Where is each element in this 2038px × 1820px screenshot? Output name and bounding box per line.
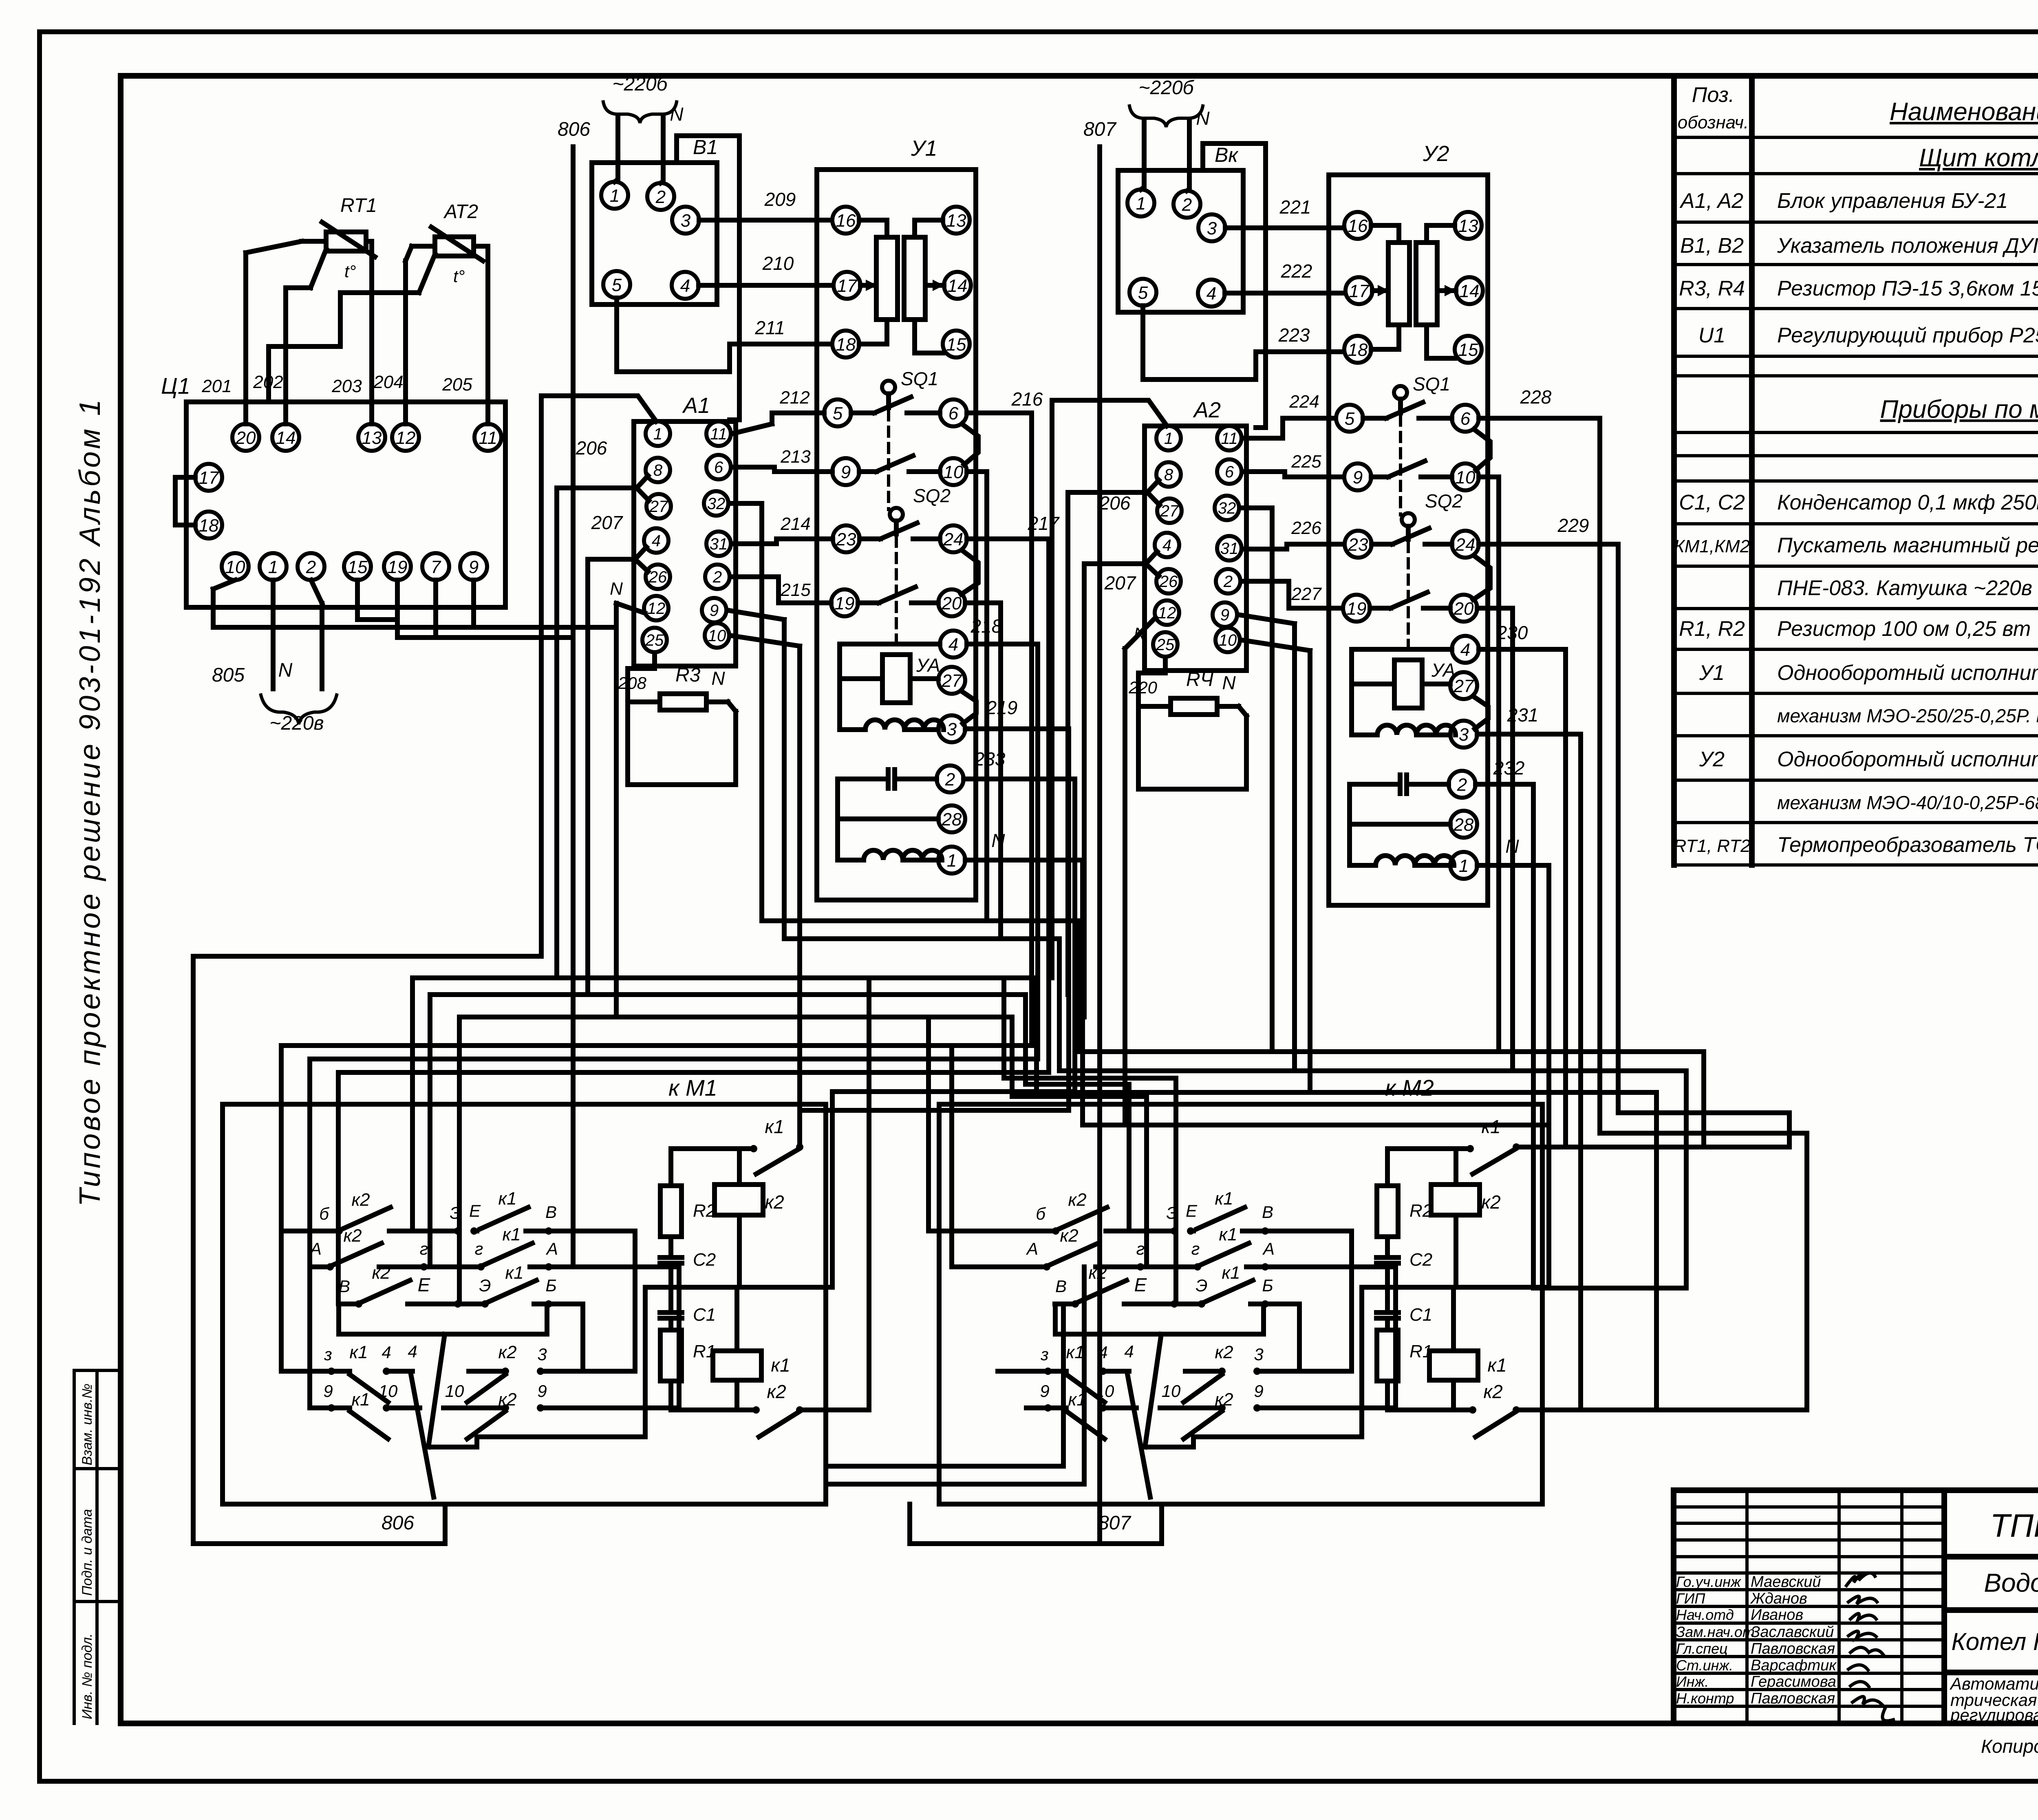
terminal 17	[1345, 277, 1372, 304]
terminal 2	[705, 565, 730, 589]
svg-text:31: 31	[1220, 540, 1239, 558]
svg-text:17: 17	[1349, 281, 1370, 301]
svg-text:RЧ: RЧ	[1186, 669, 1214, 690]
svg-text:У1: У1	[1699, 661, 1725, 685]
svg-text:Е: Е	[469, 1201, 481, 1220]
terminal 1	[1127, 190, 1154, 216]
terminal 25	[1153, 632, 1178, 657]
terminal 10	[1215, 628, 1240, 652]
svg-text:28: 28	[942, 810, 962, 829]
svg-text:Наименование: Наименование	[1890, 98, 2038, 126]
svg-text:4: 4	[382, 1343, 391, 1362]
svg-text:~220б: ~220б	[612, 73, 668, 95]
svg-text:к1: к1	[1066, 1342, 1084, 1362]
svg-text:228: 228	[1520, 386, 1552, 408]
wire 17-18 link	[175, 477, 195, 525]
svg-text:8: 8	[653, 461, 663, 479]
svg-text:211: 211	[754, 317, 785, 338]
terminal 32	[1215, 496, 1239, 520]
terminal 1	[938, 847, 965, 874]
wire SQ2b out drop	[965, 603, 1001, 939]
terminal 2	[1449, 771, 1476, 798]
svg-text:5: 5	[833, 404, 843, 424]
svg-text:N: N	[1505, 836, 1519, 857]
node E box	[339, 1304, 547, 1334]
svg-text:к2: к2	[1088, 1263, 1107, 1283]
wire KM2 row2 left extension	[952, 1046, 1032, 1267]
terminal 5	[824, 399, 851, 426]
terminal 17	[834, 272, 860, 299]
svg-text:2: 2	[945, 770, 955, 790]
position indicator B2	[1118, 170, 1243, 312]
svg-text:3: 3	[681, 211, 691, 231]
actuator unit Y1	[817, 170, 976, 900]
wire supply drops 2	[1141, 121, 1189, 191]
svg-text:11: 11	[1221, 430, 1238, 448]
svg-text:C1, C2: C1, C2	[1679, 491, 1745, 514]
wire A1.25 to R3	[628, 653, 736, 785]
terminal 9	[460, 553, 487, 580]
capacitor C2	[1376, 1257, 1398, 1263]
svg-text:24: 24	[943, 529, 964, 549]
wire column C1	[1079, 921, 1704, 1147]
contact row4 K2	[1184, 1371, 1352, 1402]
svg-text:У2: У2	[1423, 141, 1449, 166]
wire 214	[732, 539, 833, 544]
svg-text:27: 27	[1454, 676, 1474, 696]
svg-text:9: 9	[1353, 468, 1363, 488]
svg-text:Е: Е	[1134, 1274, 1147, 1295]
svg-text:215: 215	[780, 580, 811, 600]
svg-text:Пускатель магнитный реверсив: Пускатель магнитный реверсивный	[1777, 534, 2038, 557]
contact row5 K2	[1160, 1408, 1396, 1439]
svg-text:220: 220	[1128, 678, 1158, 697]
svg-text:А: А	[309, 1239, 322, 1258]
wire bus 2399	[412, 978, 1037, 1231]
svg-text:к1: к1	[1222, 1263, 1240, 1283]
svg-text:23: 23	[1348, 535, 1368, 555]
svg-text:1: 1	[947, 851, 957, 871]
svg-text:Э: Э	[479, 1276, 491, 1295]
regulator unit U1 (Ц1)	[186, 402, 505, 607]
svg-text:223: 223	[1278, 324, 1310, 346]
control unit A1	[634, 421, 736, 666]
svg-text:5: 5	[1138, 283, 1148, 303]
svg-text:3: 3	[947, 719, 957, 739]
svg-text:Павловская: Павловская	[1751, 1690, 1835, 1707]
wire A2.32 drop	[1240, 508, 1272, 1052]
wire 224	[1243, 418, 1336, 438]
terminal 11	[706, 421, 731, 446]
wire B2 right loop	[1203, 143, 1266, 428]
terminal 14	[944, 272, 971, 299]
contact row2 K1	[1140, 1243, 1396, 1408]
wire RT1 leads	[246, 241, 326, 424]
svg-text:к1: к1	[505, 1263, 523, 1283]
svg-text:механизм МЭО-40/10-0,25Р-68. к: механизм МЭО-40/10-0,25Р-68. катушка~220…	[1777, 792, 2038, 813]
svg-text:Е: Е	[1186, 1201, 1198, 1220]
wire column C2	[1059, 939, 1686, 1288]
svg-text:226: 226	[1291, 518, 1321, 538]
svg-text:~220в: ~220в	[269, 713, 324, 734]
contact row4 K1	[281, 1371, 412, 1402]
svg-text:9: 9	[469, 557, 479, 577]
svg-text:Конденсатор 0,1 мкф 250в: Конденсатор 0,1 мкф 250в	[1777, 491, 2038, 514]
svg-text:2: 2	[1223, 573, 1233, 591]
svg-text:к1: к1	[1219, 1224, 1237, 1244]
wire inter-KM ties	[826, 1267, 1084, 1484]
wire B1.4 to U1.17 (210)	[699, 283, 834, 288]
wire 216	[967, 413, 1032, 1046]
terminal 31	[1217, 536, 1242, 560]
svg-text:31: 31	[710, 535, 728, 553]
svg-text:Копировал: ФЛ: Копировал: ФЛ	[1981, 1736, 2038, 1757]
wire 228	[1479, 418, 1807, 1410]
contact row1 K1	[1191, 1207, 1352, 1371]
svg-text:15: 15	[1458, 340, 1478, 360]
terminal 1	[646, 421, 670, 446]
wire 27-3 link	[961, 691, 976, 724]
svg-text:206: 206	[576, 437, 607, 459]
svg-text:к1: к1	[771, 1355, 790, 1376]
svg-text:Нач.отд: Нач.отд	[1676, 1606, 1734, 1623]
wire k1R up KM1	[797, 921, 802, 1147]
contact row5 K1	[310, 1408, 420, 1439]
svg-text:13: 13	[1458, 216, 1478, 236]
wire bus 2565	[281, 1046, 1032, 1371]
svg-text:Ст.инж.: Ст.инж.	[1676, 1657, 1733, 1674]
wire B2.3 to U2.16 (221)	[1225, 225, 1344, 230]
relay coil k2	[715, 1185, 763, 1215]
terminal 2	[937, 766, 964, 792]
terminal 23	[833, 525, 860, 552]
wire k2R KM2	[1549, 1407, 1656, 1412]
resistor pot2b	[1416, 243, 1437, 325]
svg-text:Котел КВ-ГМ-20: Котел КВ-ГМ-20	[1951, 1628, 2038, 1655]
svg-text:к2: к2	[498, 1342, 516, 1362]
svg-text:10: 10	[1162, 1381, 1181, 1401]
svg-text:к2: к2	[1215, 1342, 1233, 1362]
parts list table	[1674, 77, 2038, 865]
svg-text:12: 12	[647, 600, 666, 618]
svg-text:t°: t°	[453, 267, 465, 286]
svg-text:4: 4	[1098, 1343, 1107, 1362]
terminal 23	[1345, 531, 1372, 558]
resistor R2	[1377, 1186, 1398, 1237]
svg-text:обознач.: обознач.	[1678, 113, 1749, 132]
svg-text:15: 15	[946, 335, 966, 355]
svg-text:4: 4	[652, 532, 661, 550]
svg-text:4: 4	[408, 1342, 417, 1361]
terminal 14	[1456, 277, 1483, 304]
terminal 3	[1198, 214, 1225, 241]
terminal 3	[938, 715, 965, 742]
svg-text:N: N	[278, 660, 293, 681]
contact row5 K1	[1026, 1408, 1136, 1439]
svg-text:12: 12	[1158, 604, 1176, 622]
svg-text:Типовое проектное решение: Типовое проектное решение 903-01-192 Аль…	[74, 397, 106, 1207]
wire B1.3 to U1.16 (209)	[699, 218, 832, 223]
svg-text:В: В	[339, 1277, 350, 1296]
wire bus 2631	[338, 1072, 1049, 1304]
wire A1.32 drop	[730, 503, 800, 921]
svg-text:к2: к2	[1068, 1190, 1086, 1210]
terminal 20	[232, 424, 259, 451]
svg-text:Иванов: Иванов	[1751, 1606, 1803, 1624]
svg-text:Гл.спец: Гл.спец	[1676, 1640, 1728, 1657]
svg-text:7: 7	[431, 557, 441, 577]
svg-text:217: 217	[1028, 513, 1060, 534]
svg-text:24: 24	[1455, 535, 1476, 555]
svg-text:Термопреобразователь ТСП-5071: Термопреобразователь ТСП-5071	[1777, 833, 2038, 857]
contact row4 K2	[467, 1371, 635, 1402]
svg-text:RT1, RT2: RT1, RT2	[1673, 836, 1750, 856]
svg-text:6: 6	[714, 459, 723, 477]
resistor pot1	[876, 237, 898, 320]
svg-text:28: 28	[1454, 815, 1474, 835]
svg-text:Блок управления БУ-21: Блок управления БУ-21	[1777, 189, 2008, 213]
svg-text:Варсафтик: Варсафтик	[1751, 1657, 1837, 1674]
svg-text:6: 6	[1460, 409, 1471, 429]
svg-text:233: 233	[974, 748, 1006, 770]
terminal 14	[272, 424, 299, 451]
wire 228 tie	[1656, 1407, 1807, 1412]
svg-text:Инж.: Инж.	[1676, 1673, 1709, 1690]
svg-text:18: 18	[199, 516, 219, 536]
wire mid bus	[477, 1287, 832, 1437]
svg-text:17: 17	[837, 276, 858, 296]
svg-text:203: 203	[331, 376, 362, 396]
left margin stamp boxes	[74, 1370, 121, 1723]
svg-text:N: N	[991, 830, 1005, 851]
svg-text:В: В	[1262, 1202, 1273, 1222]
wire 219	[965, 729, 1069, 1110]
terminal 4	[1452, 636, 1479, 663]
resistor R1	[1385, 1318, 1390, 1410]
actuator unit Y2	[1329, 175, 1488, 905]
svg-text:20: 20	[236, 428, 256, 448]
terminal 18	[832, 331, 859, 357]
terminal 6	[1452, 405, 1479, 432]
svg-text:3: 3	[1459, 725, 1469, 745]
svg-text:6: 6	[1225, 463, 1234, 481]
resistor R1	[668, 1318, 673, 1410]
resistor pot2	[904, 237, 925, 320]
svg-text:3: 3	[537, 1345, 547, 1364]
svg-text:Подп. и дата: Подп. и дата	[79, 1509, 95, 1596]
svg-text:221: 221	[1279, 196, 1311, 218]
svg-text:А: А	[545, 1239, 558, 1258]
relay coil k2	[1431, 1185, 1480, 1215]
svg-text:806: 806	[558, 119, 590, 140]
wire N drop	[965, 860, 1083, 1125]
contact row4 K1	[998, 1371, 1129, 1402]
svg-text:19: 19	[1347, 599, 1367, 619]
wire 230	[1479, 649, 1566, 1147]
contact SQ1a2	[1363, 402, 1452, 418]
wire slant2	[1127, 1374, 1150, 1497]
terminal 10	[940, 458, 967, 485]
wire RT2 leads	[406, 246, 435, 424]
svg-text:В1: В1	[693, 136, 718, 159]
terminal 20	[1450, 595, 1477, 622]
terminal 16	[1344, 212, 1371, 239]
svg-text:Б: Б	[1262, 1276, 1273, 1295]
svg-text:807: 807	[1083, 119, 1117, 140]
svg-text:Резистор 100 ом 0,25 вт: Резистор 100 ом 0,25 вт	[1777, 617, 2031, 641]
wire R4 to N	[1217, 706, 1246, 716]
wire 206	[557, 476, 649, 978]
svg-text:1: 1	[1136, 194, 1146, 214]
svg-text:к2: к2	[1215, 1390, 1233, 1410]
wire column C5	[1012, 1017, 1147, 1267]
terminal 19	[1343, 595, 1370, 622]
svg-text:218: 218	[970, 615, 1002, 637]
svg-text:225: 225	[1291, 452, 1321, 472]
svg-text:к1: к1	[1215, 1189, 1233, 1209]
svg-text:16: 16	[1348, 216, 1368, 236]
contact SQ2b2	[1370, 592, 1450, 608]
wire B1 right loop	[677, 136, 739, 420]
terminal 27	[646, 494, 671, 518]
contact row3 K2	[1055, 1280, 1174, 1304]
svg-text:14: 14	[1460, 281, 1480, 301]
svg-text:Зам.нач.от: Зам.нач.от	[1676, 1624, 1755, 1640]
wire A2.1 feed	[1052, 400, 1167, 978]
svg-text:Водогрейные котлы типа КВ-Г: Водогрейные котлы типа КВ-ГМ	[1984, 1568, 2038, 1597]
svg-text:ТПР 903-01-192 АГСиАНС: ТПР 903-01-192 АГСиАНС	[1990, 1507, 2038, 1544]
terminal 4	[1155, 533, 1179, 557]
wire A1.10 drop	[730, 635, 800, 921]
svg-text:4: 4	[1124, 1342, 1134, 1361]
wire bus 2724	[800, 1110, 1069, 1147]
svg-text:224: 224	[1289, 392, 1319, 412]
svg-text:8: 8	[1164, 466, 1173, 484]
wire matrix bottom	[428, 1437, 477, 1447]
svg-text:207: 207	[1104, 572, 1136, 593]
svg-text:5: 5	[1345, 409, 1355, 429]
terminal 2	[298, 553, 324, 580]
svg-text:Маевский: Маевский	[1751, 1573, 1821, 1591]
wire bus 2495	[459, 1017, 1012, 1304]
wire 807 drop	[1097, 147, 1102, 1544]
svg-text:г: г	[1136, 1239, 1145, 1258]
svg-text:25: 25	[1156, 636, 1175, 654]
wire bus 2678	[832, 1092, 1075, 1287]
wire 212	[732, 413, 824, 434]
contact SQ2b	[858, 587, 938, 603]
wire slant1	[1145, 1334, 1161, 1447]
svg-text:208: 208	[618, 673, 647, 693]
terminal 17	[195, 464, 222, 491]
terminal 18	[195, 512, 222, 538]
terminal 25	[642, 628, 667, 652]
contact SQ2a2	[1372, 528, 1452, 544]
svg-text:14: 14	[948, 276, 968, 296]
svg-text:к1: к1	[498, 1189, 516, 1209]
svg-text:2: 2	[712, 568, 722, 586]
node E box	[1055, 1304, 1264, 1334]
terminal 10	[705, 623, 729, 648]
svg-text:27: 27	[942, 671, 962, 691]
wire column C3	[1037, 978, 1656, 1410]
svg-text:4: 4	[1206, 284, 1216, 304]
svg-text:12: 12	[396, 428, 416, 448]
wire pot linkage	[866, 280, 877, 291]
terminal 5	[1336, 405, 1363, 432]
resistor pot1b	[1388, 243, 1409, 325]
wire matrix bottom	[1145, 1437, 1193, 1447]
terminal 1	[601, 182, 628, 209]
terminal 4	[1198, 280, 1225, 307]
svg-text:N: N	[1196, 108, 1210, 129]
terminal 28	[938, 805, 965, 832]
svg-text:20: 20	[942, 593, 962, 613]
svg-text:SQ2: SQ2	[1425, 490, 1462, 512]
svg-text:15: 15	[348, 557, 368, 577]
terminal 24	[1452, 531, 1479, 558]
terminal 9	[832, 458, 859, 485]
terminal 15	[344, 553, 371, 580]
wire 227	[1242, 581, 1343, 608]
inductor L1b	[1377, 725, 1456, 735]
svg-text:N: N	[610, 579, 623, 599]
terminal 6	[940, 399, 967, 426]
wire column C6	[1004, 978, 1176, 1304]
wire A2.9 drop	[1238, 615, 1295, 1071]
svg-text:б: б	[1036, 1204, 1046, 1223]
wire 806 drop	[571, 147, 576, 1267]
svg-text:з: з	[1040, 1345, 1049, 1364]
svg-text:20: 20	[1454, 599, 1474, 619]
svg-text:10: 10	[708, 627, 726, 645]
wire 218	[967, 644, 1038, 1059]
terminal 27	[1450, 672, 1477, 699]
svg-text:N: N	[711, 668, 725, 689]
svg-text:4: 4	[1162, 536, 1171, 554]
terminal 13	[358, 424, 385, 451]
capacitor C1	[668, 1287, 673, 1313]
wire bus 2346	[193, 956, 541, 1544]
wire A1.9 drop	[728, 610, 784, 939]
svg-text:к1: к1	[1481, 1116, 1500, 1137]
svg-text:32: 32	[707, 495, 726, 513]
capacitor branch	[888, 770, 895, 788]
svg-text:Регулирующий прибор Р25 21: Регулирующий прибор Р25 21	[1777, 324, 2038, 347]
terminal 1	[1450, 852, 1477, 879]
wire 213	[732, 467, 832, 472]
wire R3 to N	[706, 702, 736, 711]
wire supply drops	[615, 117, 663, 183]
svg-text:ГИП: ГИП	[1676, 1590, 1705, 1607]
svg-text:Инв. № подл.: Инв. № подл.	[79, 1633, 95, 1719]
wire 6-10 link	[962, 424, 978, 465]
contact row1 K1	[474, 1207, 635, 1371]
terminal 12	[1155, 600, 1179, 625]
wire B2.5 to U2.18 (223)	[1143, 306, 1348, 379]
svg-text:13: 13	[946, 211, 966, 231]
svg-text:А2: А2	[1193, 398, 1221, 422]
svg-text:Н.контр: Н.контр	[1676, 1690, 1734, 1707]
contact k2 bottom	[1387, 1410, 1549, 1437]
svg-text:206: 206	[1099, 492, 1131, 514]
svg-text:Приборы по месту: Приборы по месту	[1880, 395, 2038, 424]
wire 225	[1243, 472, 1344, 477]
svg-text:10: 10	[225, 557, 245, 577]
wire bus 2259	[800, 918, 1079, 923]
terminal 11	[1217, 426, 1242, 450]
svg-text:U1: U1	[1698, 324, 1725, 347]
